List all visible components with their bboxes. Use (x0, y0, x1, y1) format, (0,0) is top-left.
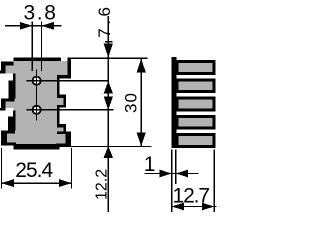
svg-text:30: 30 (122, 92, 141, 113)
up arrow to bottom corner (104, 146, 113, 158)
left black fin1 (8, 80, 15, 98)
svg-text:12.2: 12.2 (94, 169, 111, 200)
tab3 top bar (1, 130, 15, 133)
svg-text:25.4: 25.4 (15, 159, 53, 182)
right inset face a (57, 78, 59, 94)
outline: top bar (14, 58, 62, 61)
hole centerline (36, 70, 38, 121)
left edge tab3 (1, 133, 7, 142)
right step-out bar b (57, 124, 66, 128)
right step-in bar a (57, 75, 71, 78)
mounting hole 1 (33, 77, 41, 85)
fin 4 (171, 115, 215, 130)
down arrow to top edge (104, 43, 113, 57)
left face gap1 (13, 73, 15, 80)
right step-out bar a (57, 94, 66, 98)
svg-text:7.6: 7.6 (95, 4, 114, 38)
left top bar (1, 62, 13, 66)
fin 5 (171, 133, 215, 148)
foot bar (bottom center) (13, 144, 59, 149)
T tick (105, 41, 113, 43)
right step-in bar b (57, 105, 66, 108)
fin 2 (171, 78, 215, 93)
svg-text:1: 1 (144, 153, 156, 176)
right bottom corner block (66, 134, 72, 147)
left black fin2 (8, 116, 16, 130)
left edge tab2 (1, 102, 5, 108)
right mid face b (63, 128, 66, 132)
body gray slab (5, 61, 67, 146)
up arrow to hole1 (104, 81, 113, 93)
left face gap2 (13, 111, 15, 117)
fin 3 (171, 97, 215, 112)
down arrow to hole2 (104, 96, 113, 110)
spine (171, 57, 176, 147)
tab2 black cap (0, 108, 5, 111)
svg-text:3.8: 3.8 (24, 1, 58, 24)
right bottom bar (56, 144, 71, 148)
tab2 top bar (1, 98, 15, 101)
right inset face b (57, 108, 59, 125)
tab3 bottom bar (1, 143, 16, 146)
extension ticks (71, 57, 148, 59)
fin 1 (171, 60, 215, 75)
right bottom step bar (57, 131, 71, 134)
svg-text:12.7: 12.7 (173, 185, 210, 208)
right mid face a (63, 98, 66, 105)
left edge tab1 (1, 62, 5, 71)
right corner block (67, 58, 71, 75)
tab1 black cap (0, 71, 5, 74)
mounting hole 2 (33, 106, 41, 114)
